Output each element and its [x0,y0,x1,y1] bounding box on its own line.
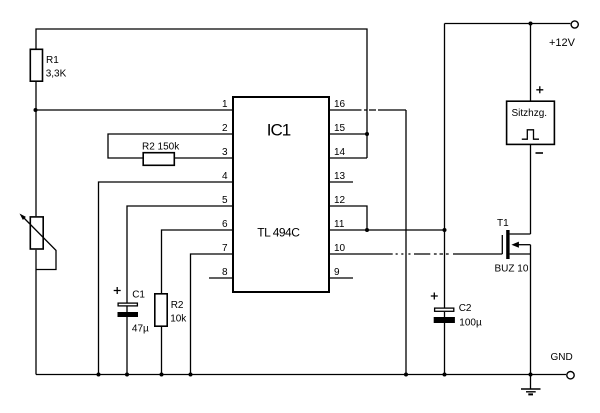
svg-text:TL 494C: TL 494C [257,226,300,240]
svg-text:13: 13 [334,171,346,182]
svg-text:100µ: 100µ [459,318,482,329]
svg-text:12: 12 [334,195,346,206]
svg-text:1: 1 [222,99,228,110]
svg-text:4: 4 [222,171,228,182]
svg-text:3: 3 [222,147,228,158]
svg-text:16: 16 [334,99,346,110]
svg-text:7: 7 [222,243,228,254]
svg-text:IC1: IC1 [267,120,291,139]
svg-text:T1: T1 [497,218,509,229]
svg-text:14: 14 [334,147,346,158]
svg-text:9: 9 [334,267,340,278]
svg-text:15: 15 [334,123,346,134]
svg-text:2: 2 [222,123,228,134]
svg-text:3,3K: 3,3K [46,69,67,80]
svg-text:47µ: 47µ [132,324,149,335]
svg-text:GND: GND [551,352,573,363]
svg-text:+12V: +12V [549,37,576,49]
svg-text:Sitzhzg.: Sitzhzg. [512,108,548,119]
svg-text:C2: C2 [459,303,472,314]
svg-text:5: 5 [222,195,228,206]
svg-text:BUZ 10: BUZ 10 [495,264,529,275]
svg-text:11: 11 [334,219,345,230]
svg-text:R1: R1 [46,55,59,66]
svg-text:8: 8 [222,267,228,278]
svg-text:C1: C1 [132,290,145,301]
svg-text:R2 150k: R2 150k [142,142,180,153]
svg-text:6: 6 [222,219,228,230]
svg-text:10k: 10k [170,313,187,324]
svg-text:10: 10 [334,243,346,254]
svg-text:R2: R2 [171,300,184,311]
